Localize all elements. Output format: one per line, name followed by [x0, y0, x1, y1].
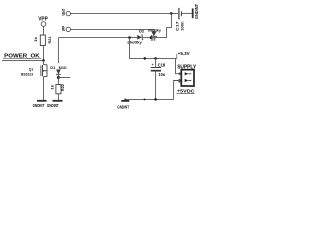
- svg-text:D2: D2: [139, 29, 145, 34]
- capacitor C18 10u: [151, 58, 166, 99]
- wire VPP flag to R21: [43, 26, 45, 35]
- svg-text:GNDINT: GNDINT: [194, 4, 199, 19]
- ground GNDINT (left-middle): [47, 101, 63, 108]
- svg-text:1: 1: [178, 79, 180, 83]
- connector SUPPLY: [177, 65, 197, 95]
- svg-text:VBAT: VBAT: [61, 8, 66, 15]
- wire junction to R22: [57, 78, 59, 85]
- node VPP (power flag top-left): [38, 16, 48, 26]
- wire main horizontal net: [59, 37, 137, 39]
- svg-text:2: 2: [178, 72, 180, 76]
- net label POWER_OK: [3, 54, 41, 60]
- junction C18 to ground run: [154, 98, 157, 101]
- wire +5.3V rail to SUPPLY pin 2: [176, 58, 182, 73]
- svg-text:BAS40: BAS40: [59, 66, 67, 70]
- junction rail stray: [144, 57, 147, 60]
- diode D2 shottky: [127, 29, 151, 45]
- pin VPP: [61, 26, 71, 32]
- svg-text:C18: C18: [158, 62, 166, 67]
- wire corner to D1 column: [57, 38, 59, 63]
- junction rail to C18: [154, 57, 157, 60]
- ground GNDINT (left): [33, 101, 47, 108]
- junction diode cathodes: [150, 36, 153, 39]
- diode D1: [50, 66, 66, 74]
- diode D3 shottky: [148, 28, 162, 42]
- svg-text:GNDINT: GNDINT: [117, 104, 129, 109]
- junction POWER_OK node: [42, 59, 45, 62]
- svg-text:BSS123: BSS123: [21, 71, 34, 76]
- junction VBAT tap: [170, 12, 173, 15]
- ground GNDINT (bottom middle): [117, 98, 129, 109]
- wire R21 to POWER_OK junction: [43, 46, 45, 61]
- wire C17 to ground: [182, 12, 192, 14]
- svg-text:C17: C17: [176, 21, 180, 31]
- junction ground run stray: [144, 98, 146, 100]
- capacitor C17 (top right): [176, 8, 185, 31]
- svg-text:R21: R21: [48, 37, 52, 44]
- wire ground to SUPPLY pin 1: [174, 81, 182, 100]
- svg-text:R22: R22: [61, 84, 65, 91]
- wire VBAT drop to diode block: [157, 13, 171, 37]
- transistor Q1 BSS123: [21, 60, 47, 76]
- wire ground run (bottom): [125, 98, 173, 100]
- wire R22 to ground: [57, 94, 59, 100]
- resistor R22: [51, 84, 66, 94]
- wire drop to +5.3V rail: [130, 38, 177, 59]
- svg-text:+: +: [152, 63, 154, 67]
- wire stub right: [58, 77, 70, 79]
- svg-text:100n: 100n: [180, 21, 184, 31]
- svg-text:10u: 10u: [159, 72, 166, 77]
- wire VPP rail: [71, 28, 154, 30]
- wire Q1 source to ground: [43, 77, 45, 101]
- wire VBAT rail: [71, 12, 179, 14]
- svg-text:VPP: VPP: [61, 26, 66, 32]
- svg-text:GNDINT: GNDINT: [33, 103, 45, 108]
- wire D1 to junction: [57, 74, 59, 77]
- svg-text:GNDINT: GNDINT: [47, 103, 59, 108]
- ground GNDINT (top right, rotated): [193, 4, 200, 19]
- svg-text:shottky: shottky: [148, 28, 162, 33]
- svg-text:+5.3V: +5.3V: [178, 51, 191, 57]
- svg-text:D1: D1: [50, 66, 55, 70]
- net label +5.3V: [177, 51, 191, 58]
- junction D1 / R22 / stub: [57, 76, 60, 79]
- svg-text:D3: D3: [151, 36, 157, 41]
- junction main net to +5.3V drop: [128, 36, 131, 39]
- resistor R21: [34, 35, 52, 46]
- wire POWER_OK: [2, 59, 44, 61]
- pin VBAT: [61, 8, 71, 15]
